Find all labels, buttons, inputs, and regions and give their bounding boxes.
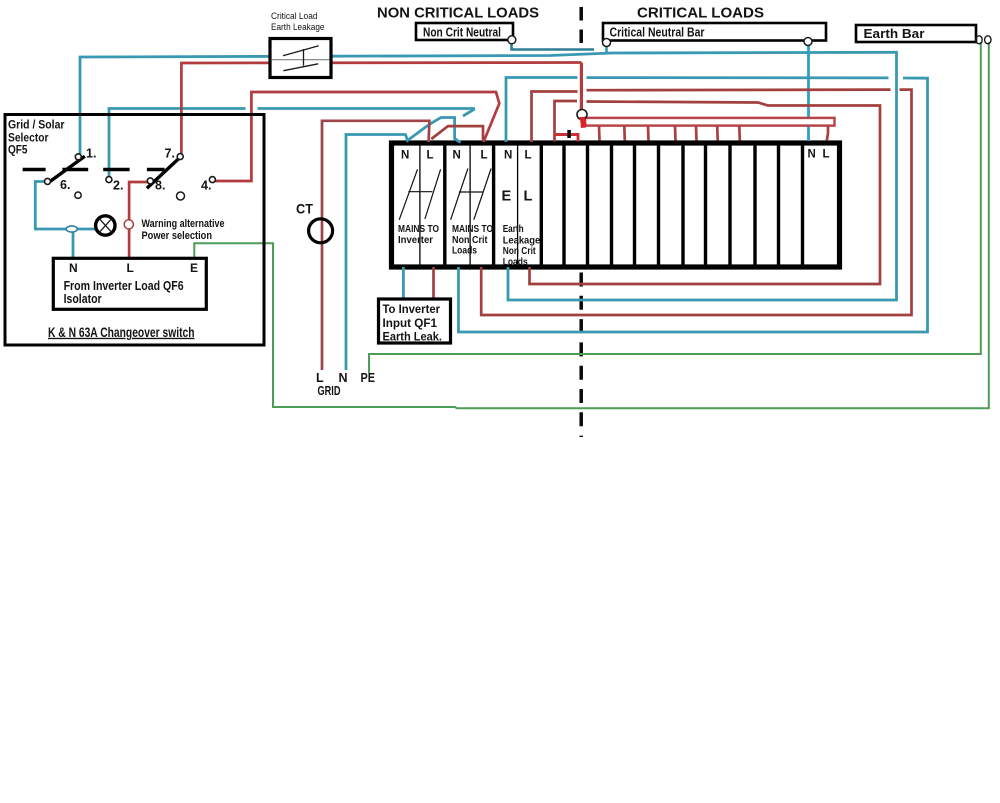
svg-text:1.: 1.	[86, 147, 96, 161]
svg-text:L: L	[823, 149, 830, 161]
svg-text:Loads: Loads	[452, 245, 477, 256]
svg-text:GRID: GRID	[318, 384, 341, 398]
wire: blue open blade at end of T2 line	[463, 109, 475, 116]
wire: red GRID L riser through CT up and over to module1 L	[322, 121, 429, 370]
wire: red drop x554 with sub-bus to board	[555, 101, 578, 142]
breaker symbol U2 pole 2	[474, 169, 491, 220]
wire: red module1 L bottom stub into To Inverter box	[432, 267, 435, 300]
svg-text:Grid / Solar: Grid / Solar	[8, 120, 65, 132]
breaker symbol U2 (MAINS TO Non Crit Loads) pole 1	[451, 169, 468, 220]
wire: blue module1 N bottom stub into To Inverter box	[402, 267, 405, 300]
Non Crit Neutral bar box	[416, 23, 513, 40]
svg-text:E: E	[502, 189, 512, 205]
bus drop 4	[674, 126, 677, 141]
wire: blue neutral main from changeover T1 up over to Critical Neutral Bar line and down right side to module3 N bottom	[80, 52, 897, 300]
breaker symbol U2 tie bar	[459, 191, 483, 193]
svg-text:Earth Leak.: Earth Leak.	[383, 332, 443, 344]
wire: red blade link module1 L to module2 L	[431, 126, 483, 141]
breaker symbol U1 (MAINS TO Inverter) pole 1	[399, 169, 417, 220]
unused terminal circle right	[177, 192, 185, 200]
dashed separator line between load zones	[579, 7, 583, 45]
wire: red row from bus feed right side down to module2 L bottom	[587, 88, 891, 91]
board module divider	[443, 143, 446, 266]
svg-text:N: N	[69, 261, 78, 275]
CLEL vertical bar	[303, 49, 305, 66]
switch blade 7-8	[147, 156, 182, 188]
svg-text:QF5: QF5	[8, 145, 28, 157]
wire: blue GRID N riser, dips to module1 N then blade link to module2 N	[346, 118, 461, 371]
svg-text:CRITICAL LOADS: CRITICAL LOADS	[637, 6, 764, 22]
board module divider	[657, 143, 660, 266]
Earth Bar terminal circle 2	[985, 36, 991, 44]
svg-text:Earth: Earth	[503, 224, 524, 235]
breaker symbol U1 tie bar	[408, 191, 432, 193]
svg-text:4.: 4.	[201, 179, 211, 193]
bus drop 1	[598, 126, 601, 141]
svg-text:To Inverter: To Inverter	[383, 304, 441, 316]
svg-text:Isolator: Isolator	[64, 291, 102, 306]
CLEL gray mid line	[272, 59, 330, 61]
board module divider	[753, 143, 756, 266]
wire: red sub-bus y134 to second drop	[555, 135, 579, 142]
terminal 6 circle	[45, 178, 51, 184]
wire: blue lamp N drop to isolator N	[72, 232, 75, 259]
bus drop 3	[647, 126, 650, 141]
switch fixed contact dash C	[103, 168, 129, 172]
breaker symbol U1 pole 2	[425, 169, 441, 219]
svg-text:Power selection: Power selection	[142, 230, 213, 242]
svg-text:N: N	[808, 149, 816, 161]
board module divider	[540, 143, 543, 266]
terminal 7 circle	[177, 154, 183, 160]
wire: red from changeover T8 through lamp terminal to isolator L	[129, 182, 148, 259]
Earth Bar terminal circle 1	[976, 36, 982, 44]
bus feed red blob	[580, 117, 587, 128]
svg-text:Inverter: Inverter	[398, 235, 433, 246]
svg-text:Critical Load: Critical Load	[271, 11, 318, 21]
svg-text:2.: 2.	[113, 179, 123, 193]
lamp right terminal circle	[124, 220, 133, 229]
switch fixed contact dash B	[62, 168, 88, 172]
svg-text:CT: CT	[296, 202, 314, 217]
svg-text:Loads: Loads	[503, 257, 528, 268]
Critical Load Earth Leakage box	[270, 39, 331, 78]
K & N changeover switch outer box	[5, 115, 264, 346]
svg-text:L: L	[316, 371, 324, 385]
svg-text:MAINS TO: MAINS TO	[398, 224, 439, 235]
board module divider	[492, 143, 495, 266]
wire: green from isolator E around outside to Earth Bar right terminal	[194, 42, 989, 408]
wire: blue from changeover T6 down to warning lamp	[35, 182, 95, 230]
Earth Bar box	[856, 25, 976, 42]
terminal 1 circle	[75, 154, 81, 160]
terminal 2 circle	[106, 177, 112, 183]
board module divider	[633, 143, 636, 266]
svg-text:Earth Leakage: Earth Leakage	[271, 22, 325, 32]
svg-text:Earth Bar: Earth Bar	[864, 27, 925, 41]
bus drop 6	[716, 126, 719, 141]
svg-text:Non Crit: Non Crit	[503, 246, 537, 257]
bus drop 5	[695, 126, 698, 141]
bus drop 2	[623, 126, 626, 141]
svg-text:K & N 63A Changeover switch: K & N 63A Changeover switch	[48, 325, 195, 340]
svg-text:Critical Neutral Bar: Critical Neutral Bar	[610, 25, 705, 39]
svg-text:Selector: Selector	[8, 133, 49, 145]
wire: blue stub from Non Crit Neutral terminal	[512, 43, 595, 50]
svg-text:PE: PE	[361, 371, 376, 385]
svg-text:7.: 7.	[165, 147, 175, 161]
wire: green from GRID PE to Earth Bar terminal	[369, 42, 981, 373]
junction dot on sub-bus	[567, 130, 571, 138]
svg-text:E: E	[190, 261, 198, 275]
wire: red row2 from bus feed right side down to module3 L bottom	[530, 102, 881, 285]
Critical Neutral Bar left terminal circle	[603, 39, 611, 47]
lamp left terminal ellipse	[66, 226, 77, 232]
switch fixed contact dash D	[147, 168, 165, 172]
critical live busbar rectangle	[585, 118, 835, 126]
switch blade 1-6	[49, 156, 85, 182]
CLEL lower blade	[283, 64, 318, 71]
svg-text:6.: 6.	[60, 178, 70, 192]
board module divider	[586, 143, 589, 266]
svg-text:L: L	[481, 150, 488, 162]
svg-text:MAINS TO: MAINS TO	[452, 224, 493, 235]
board module divider	[681, 143, 684, 266]
wire: blue loop module2 N bottom around right side to module3 N top	[459, 78, 928, 332]
svg-text:L: L	[525, 150, 532, 162]
svg-text:Non Crit: Non Crit	[452, 235, 488, 246]
svg-text:L: L	[524, 189, 533, 205]
board module divider	[728, 143, 731, 266]
svg-text:N: N	[401, 150, 409, 162]
bus drop 8 to last module L	[827, 126, 828, 141]
board thin divider module3 E/L	[517, 145, 519, 265]
terminal 8 circle	[147, 178, 153, 184]
warning lamp circle with X	[96, 216, 115, 235]
bus feed terminal circle	[577, 110, 587, 120]
svg-text:Leakage: Leakage	[503, 235, 541, 246]
bus drop 7	[738, 126, 741, 141]
wire: blue drop from Critical Neutral Bar to last module N (under bus)	[807, 45, 810, 141]
To Inverter Input QF1 box	[379, 299, 451, 343]
svg-text:N: N	[339, 371, 348, 385]
Critical Neutral Bar right terminal circle	[804, 38, 812, 46]
board module divider	[704, 143, 707, 266]
CT circle	[309, 219, 333, 243]
isolator inner box From Inverter Load QF6	[53, 258, 206, 309]
unused terminal circle left	[75, 192, 81, 198]
board module divider	[801, 143, 804, 266]
svg-text:Non Crit Neutral: Non Crit Neutral	[423, 25, 501, 39]
switch fixed contact dash A	[23, 168, 46, 172]
Non Crit Neutral terminal circle	[508, 36, 516, 44]
svg-text:NON CRITICAL LOADS: NON CRITICAL LOADS	[377, 6, 539, 22]
board thin divider module2 N/L	[469, 145, 471, 265]
board thin divider module1 N/L	[419, 145, 421, 265]
svg-text:Warning alternative: Warning alternative	[142, 218, 225, 230]
svg-text:N: N	[453, 150, 461, 162]
svg-text:L: L	[427, 150, 434, 162]
wire: blue drop from Critical Neutral Bar left terminal	[605, 45, 608, 55]
CLEL upper blade	[283, 46, 319, 56]
Critical Neutral Bar box	[603, 23, 826, 41]
wire: red from changeover T4 up over to module2 L diagonal	[215, 92, 499, 181]
svg-text:Input QF1: Input QF1	[383, 318, 438, 330]
wire: red link module3 L top to bus feed	[532, 92, 578, 143]
svg-text:8.: 8.	[155, 179, 165, 193]
board module divider	[777, 143, 780, 266]
svg-text:L: L	[127, 261, 134, 275]
terminal 4 circle	[209, 177, 215, 183]
wire: blue from changeover T2 to open blade near module area	[109, 109, 246, 177]
board module divider	[562, 143, 565, 266]
main distribution board outline	[392, 143, 840, 267]
board module divider	[610, 143, 613, 266]
svg-text:N: N	[504, 150, 512, 162]
wire: red from changeover T7 to critical bus feed point	[181, 63, 581, 155]
